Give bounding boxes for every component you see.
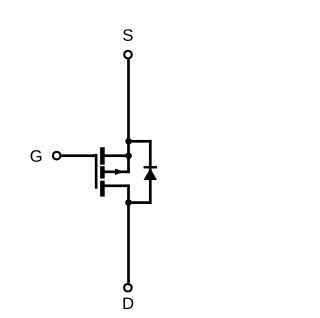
junction dot bottom (diode branch) [125,199,132,206]
wire diode cathode lead [149,140,152,166]
transistor Q1 channel segment middle [100,166,105,178]
wire diode anode lead [149,168,152,204]
transistor Q1 channel segment top [100,147,105,165]
wire drain trunk [127,184,130,282]
wire source trunk [127,59,130,173]
terminal S [124,51,132,59]
terminal G [53,152,61,160]
junction dot source contact [125,152,132,159]
node S label [123,29,133,41]
wire body contact [104,170,130,173]
node G label [31,150,42,162]
wire diode top branch [127,140,151,143]
transistor Q1 channel segment bottom [100,181,105,197]
diode D1 cathode bar [144,166,157,168]
wire source contact [104,154,130,157]
wire drain contact [104,184,130,187]
node D label [123,298,133,309]
wire diode bottom branch [127,201,151,204]
junction dot top (diode branch) [125,138,132,145]
terminal D [124,284,132,292]
transistor Q1 gate bar [95,154,98,189]
transistor Q1 body arrow [115,169,124,175]
diode D1 anode triangle [144,168,157,180]
wire gate lead [61,154,97,157]
